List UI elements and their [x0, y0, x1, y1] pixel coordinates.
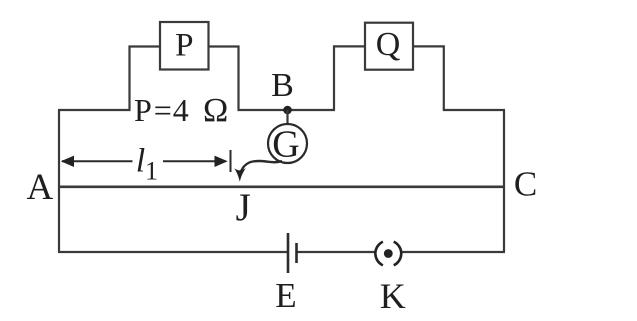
wire P branch left [130, 47, 161, 111]
wire bridge AC [58, 186, 505, 189]
length arrow l1 left segment [62, 160, 133, 162]
svg-text:l: l [136, 143, 145, 180]
svg-text:E: E [275, 276, 296, 315]
wire top left horizontal [58, 109, 131, 111]
svg-text:1: 1 [145, 157, 158, 186]
length arrow l1 right segment [163, 160, 226, 162]
svg-text:G: G [272, 124, 299, 166]
wire P branch right [209, 47, 239, 111]
wire bottom middle segment [297, 251, 376, 253]
svg-text:=: = [154, 92, 172, 128]
svg-text:P: P [134, 92, 152, 128]
wire bottom left segment [58, 251, 288, 253]
svg-text:B: B [271, 67, 294, 104]
galvanometer G circle [268, 124, 307, 163]
wire left vertical A-side [58, 110, 60, 252]
svg-text:J: J [236, 186, 251, 229]
wire Q branch right [413, 46, 444, 110]
jockey tick [230, 150, 232, 172]
wire bottom right segment [401, 251, 505, 253]
arrowhead left of l1 [61, 156, 74, 167]
svg-text:4: 4 [173, 92, 189, 128]
wire galvanometer to jockey (squiggle) [241, 161, 282, 172]
svg-text:Q: Q [376, 26, 401, 63]
jockey arrowhead at J [234, 168, 246, 182]
wire B to galvanometer [286, 110, 288, 125]
key K dot [384, 249, 393, 258]
wire Q branch left [334, 46, 365, 110]
wire B segment [238, 109, 336, 111]
arrowhead right of l1 [215, 156, 228, 167]
svg-text:Ω: Ω [203, 92, 228, 129]
resistor P box [160, 22, 209, 70]
svg-text:K: K [380, 276, 406, 316]
node B [283, 106, 292, 115]
svg-text:A: A [27, 167, 54, 208]
wire right vertical C-side [503, 110, 505, 252]
key K left arc [375, 242, 383, 266]
resistor Q box [365, 23, 413, 70]
key K right arc [394, 242, 402, 266]
battery E short plate [295, 243, 298, 263]
svg-text:P: P [175, 28, 193, 64]
wire top right horizontal [443, 109, 505, 111]
svg-text:C: C [514, 165, 537, 204]
battery E long plate [287, 233, 290, 273]
